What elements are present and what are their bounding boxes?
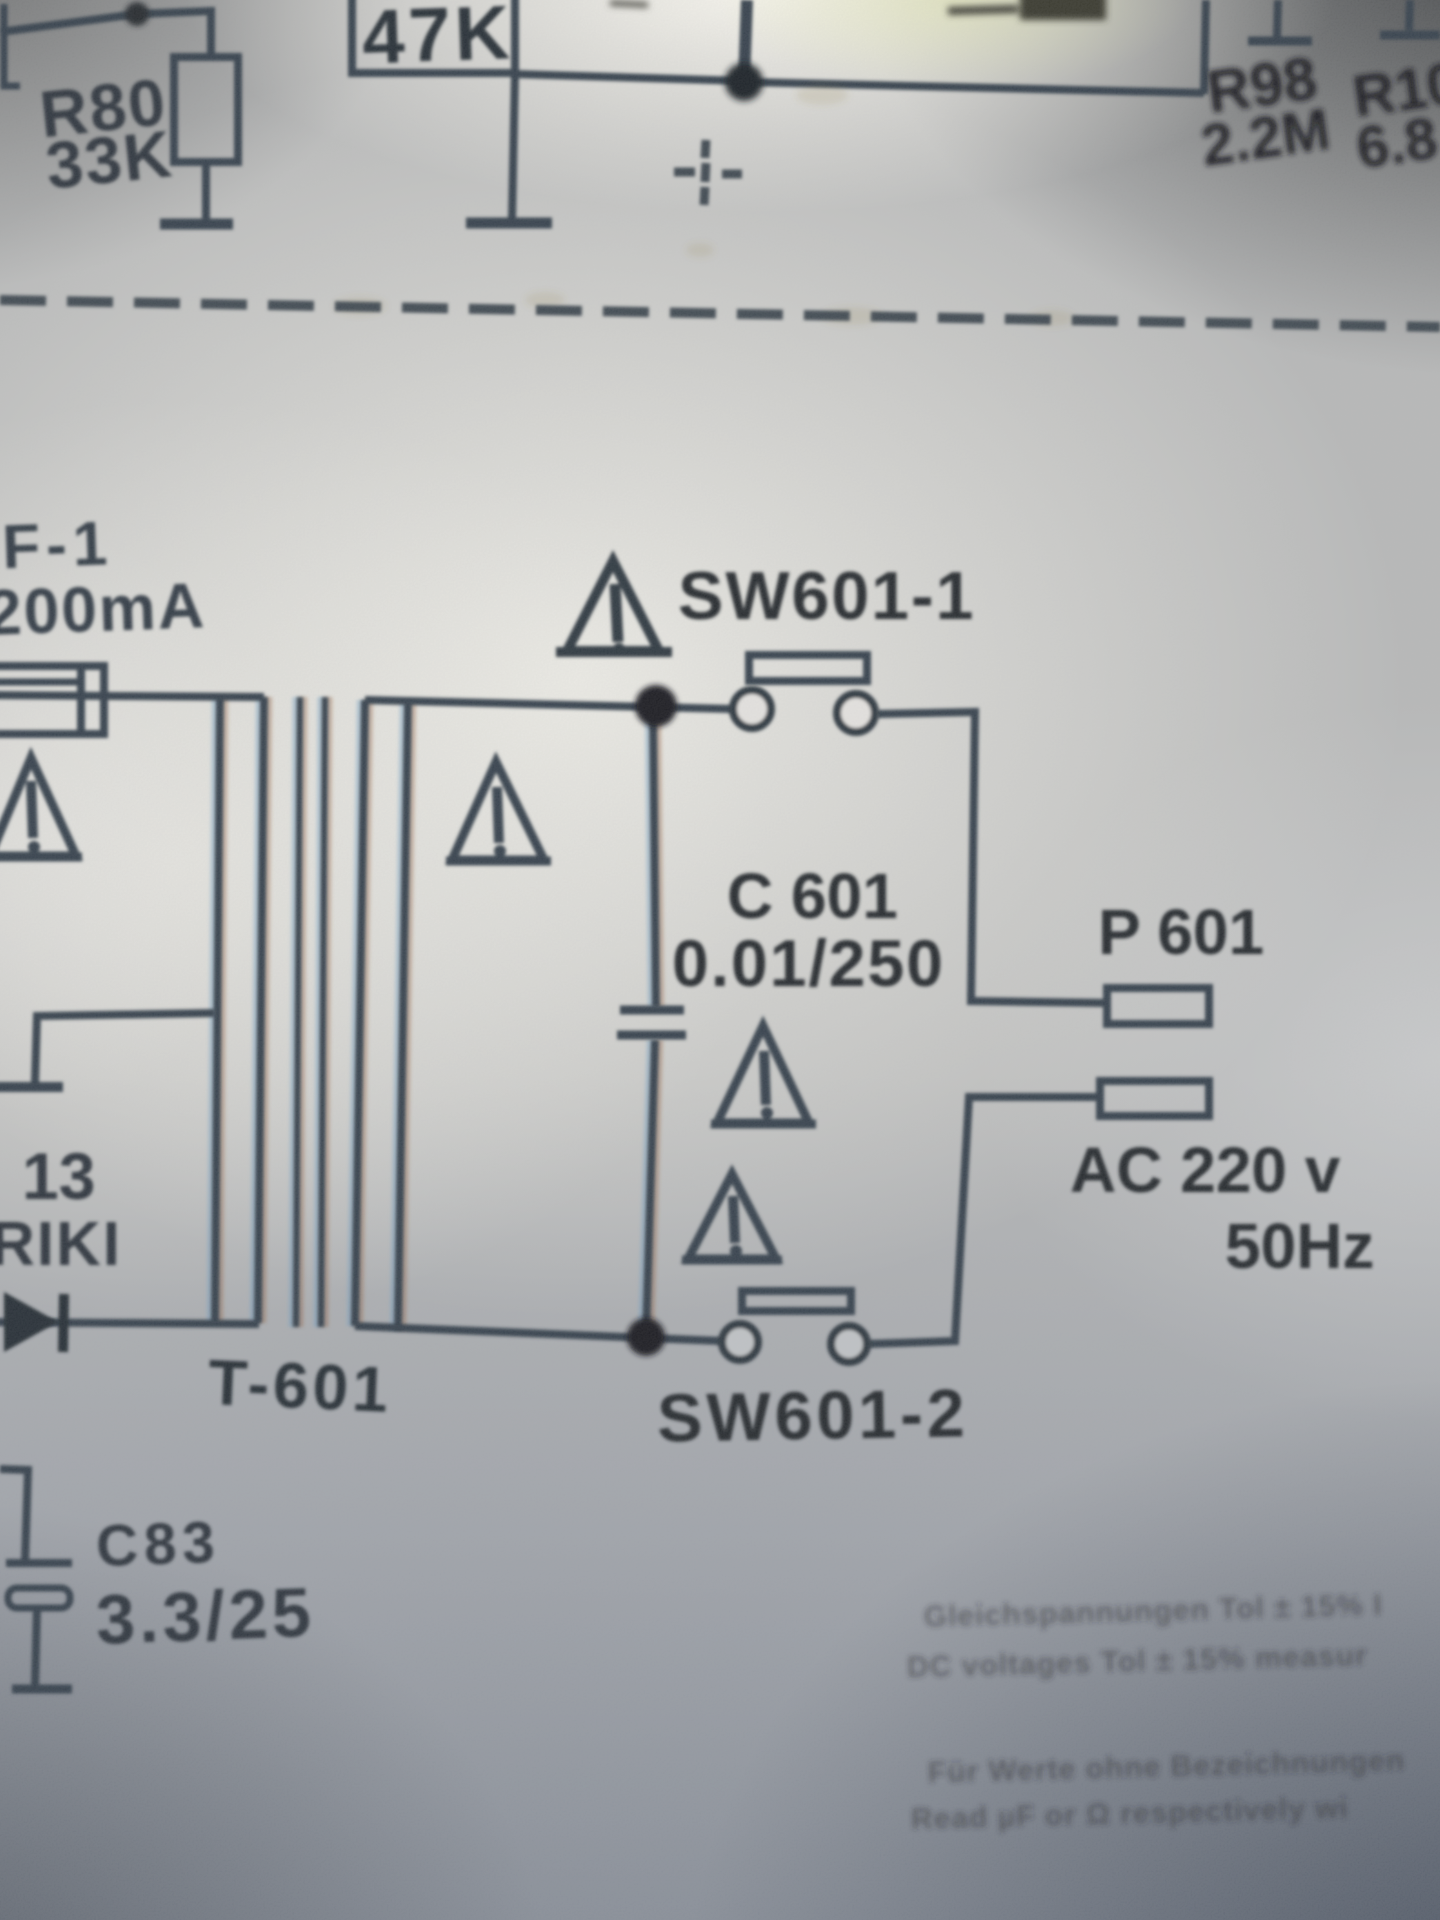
node junction dot top-center (725, 63, 763, 101)
resistor box 47K (352, 0, 515, 73)
faint note text bottom right (905, 1588, 1406, 1836)
wire vertical above node (744, 0, 747, 82)
warning triangle right of transformer (446, 762, 551, 861)
plug P601 lower pin (1100, 1081, 1209, 1116)
capacitor symbol top right partial (1277, 0, 1278, 37)
stain specks (334, 85, 1074, 326)
fuse inner line (0, 679, 78, 686)
wire SW601-1 right to P601 (877, 712, 1108, 1003)
node dot secondary bottom (627, 1318, 665, 1356)
ground below C83 (12, 1685, 72, 1694)
warning triangle right of SW601-1 node (556, 561, 672, 655)
wire secondary bottom to SW601-2 (355, 1326, 722, 1341)
wire 47K box to node (515, 74, 744, 81)
warning triangle below fuse (0, 758, 82, 857)
warning triangle below C601 (711, 1026, 816, 1124)
switch SW601-2 contact circles (722, 1324, 867, 1362)
switch SW601-1 contact circles (733, 690, 875, 732)
wire node to right (744, 82, 1204, 93)
capacitor C601 bottom plate (617, 1031, 686, 1040)
wire fuse to transformer primary (0, 695, 264, 697)
wire primary bottom to diode (0, 1322, 259, 1324)
registration crosshair (674, 140, 742, 205)
dashed separator line (0, 300, 1440, 327)
wire left tap to ground (35, 1013, 215, 1083)
capacitor C601 top plate (620, 1006, 684, 1015)
switch SW601-2 bar (742, 1291, 851, 1311)
ground below 47K (466, 218, 552, 229)
wire node to resistor R80 top (137, 11, 211, 57)
fuse inner divider (77, 666, 85, 734)
partial glyph left of 13 (0, 1160, 6, 1200)
glare bar artifact top center (610, 0, 1106, 20)
capacitor C83 polarized cup (8, 1588, 70, 1608)
fuse F-1 body (0, 666, 104, 734)
wire secondary top to SW601-1 (365, 700, 733, 709)
capacitor symbol top far right partial (1409, 0, 1410, 30)
wire lower pin to SW601-2 (868, 1097, 1100, 1344)
wire top-left bracket (4, 4, 20, 86)
ground left middle (0, 1082, 63, 1092)
plug P601 upper pin (1107, 988, 1209, 1024)
wire C83 top (0, 1469, 28, 1562)
node dot secondary top (635, 685, 677, 727)
wire diagonal to node (0, 14, 137, 32)
capacitor C83 top plate (6, 1559, 72, 1567)
wire R80 bottom lead (202, 162, 210, 219)
ground below R80 (160, 219, 233, 230)
switch SW601-1 bar (749, 655, 867, 681)
node junction dot top-left (125, 2, 149, 26)
warning triangle above SW601-2 (682, 1174, 782, 1260)
wire 47K to ground (512, 73, 515, 219)
resistor R80 (174, 57, 238, 162)
diode 13 RIKI (4, 1292, 64, 1352)
wire vertical top right (1204, 0, 1206, 94)
wire C83 bottom lead (35, 1608, 37, 1686)
